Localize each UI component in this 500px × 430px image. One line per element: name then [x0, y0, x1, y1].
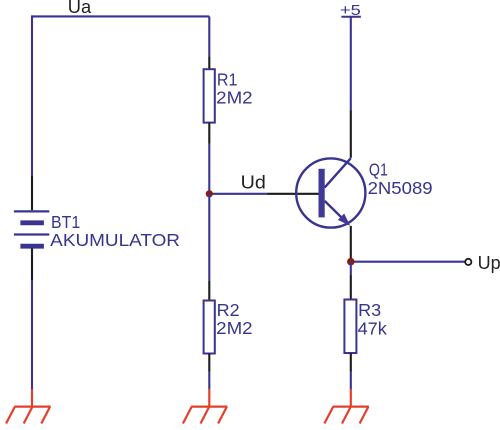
- junction node emitter dot: [347, 258, 355, 266]
- resistor R2 bottom pin: [208, 354, 210, 372]
- wire left vertical from Ua to battery: [31, 15, 33, 176]
- svg-text:2N5089: 2N5089: [368, 178, 433, 198]
- ground symbol middle: [183, 407, 228, 424]
- wire node down to R3: [350, 262, 352, 275]
- battery BT1 bottom pin: [31, 249, 33, 281]
- wire emitter node to Up terminal: [351, 261, 465, 263]
- transistor Q1 base bar: [319, 169, 325, 218]
- svg-text:Up: Up: [478, 252, 500, 273]
- resistor R1 body: [204, 69, 215, 122]
- transistor base pin wire: [267, 193, 319, 195]
- transistor Q1 collector stroke: [325, 158, 351, 187]
- resistor R1 bottom pin: [208, 123, 210, 144]
- resistor R3 body: [344, 300, 356, 354]
- ground symbol right: [324, 407, 369, 424]
- wire Ud node down to R2: [208, 194, 210, 281]
- terminal Up open circle: [465, 259, 471, 265]
- svg-text:47k: 47k: [358, 318, 387, 338]
- svg-text:AKUMULATOR: AKUMULATOR: [50, 230, 180, 250]
- resistor R1 top pin: [208, 56, 210, 69]
- wire R3 to ground: [350, 372, 352, 390]
- ground symbol left: [6, 407, 51, 424]
- junction node Ud dot: [206, 190, 213, 197]
- wire +5 down to Q1 collector: [350, 16, 352, 111]
- svg-text:Q1: Q1: [369, 159, 388, 179]
- svg-text:R2: R2: [217, 300, 240, 320]
- transistor Q1 emitter stroke: [325, 201, 349, 224]
- resistor R2 body: [204, 301, 215, 354]
- svg-text:Ua: Ua: [68, 0, 92, 17]
- power +5 bar: [341, 16, 361, 18]
- ground stub middle: [208, 389, 210, 407]
- wire Ud node to transistor base: [209, 193, 266, 195]
- transistor Q1 emitter pin: [350, 226, 352, 262]
- battery BT1 plates: [14, 211, 49, 246]
- transistor Q1 emitter arrowhead: [338, 214, 350, 226]
- wire middle vertical from Ua net down to R1: [208, 16, 210, 56]
- resistor R3 top pin: [350, 275, 352, 300]
- resistor R3 bottom pin: [350, 353, 352, 372]
- wire R2 to ground: [208, 372, 210, 390]
- transistor Q1 circle: [296, 158, 365, 227]
- wire top horizontal Ua net: [32, 15, 209, 17]
- svg-text:2M2: 2M2: [216, 88, 252, 108]
- wire left vertical from battery to ground: [31, 280, 33, 389]
- svg-text:BT1: BT1: [51, 212, 80, 232]
- transistor Q1 collector pin: [350, 111, 352, 158]
- svg-text:Ud: Ud: [241, 172, 266, 193]
- battery BT1 top pin: [31, 176, 33, 210]
- svg-text:R1: R1: [217, 70, 238, 90]
- svg-text:2M2: 2M2: [216, 318, 252, 338]
- wire R1 to node Ud: [208, 144, 210, 194]
- svg-text:R3: R3: [358, 300, 381, 320]
- resistor R2 top pin: [208, 281, 210, 301]
- ground stub right: [350, 389, 352, 407]
- ground stub left: [31, 389, 33, 407]
